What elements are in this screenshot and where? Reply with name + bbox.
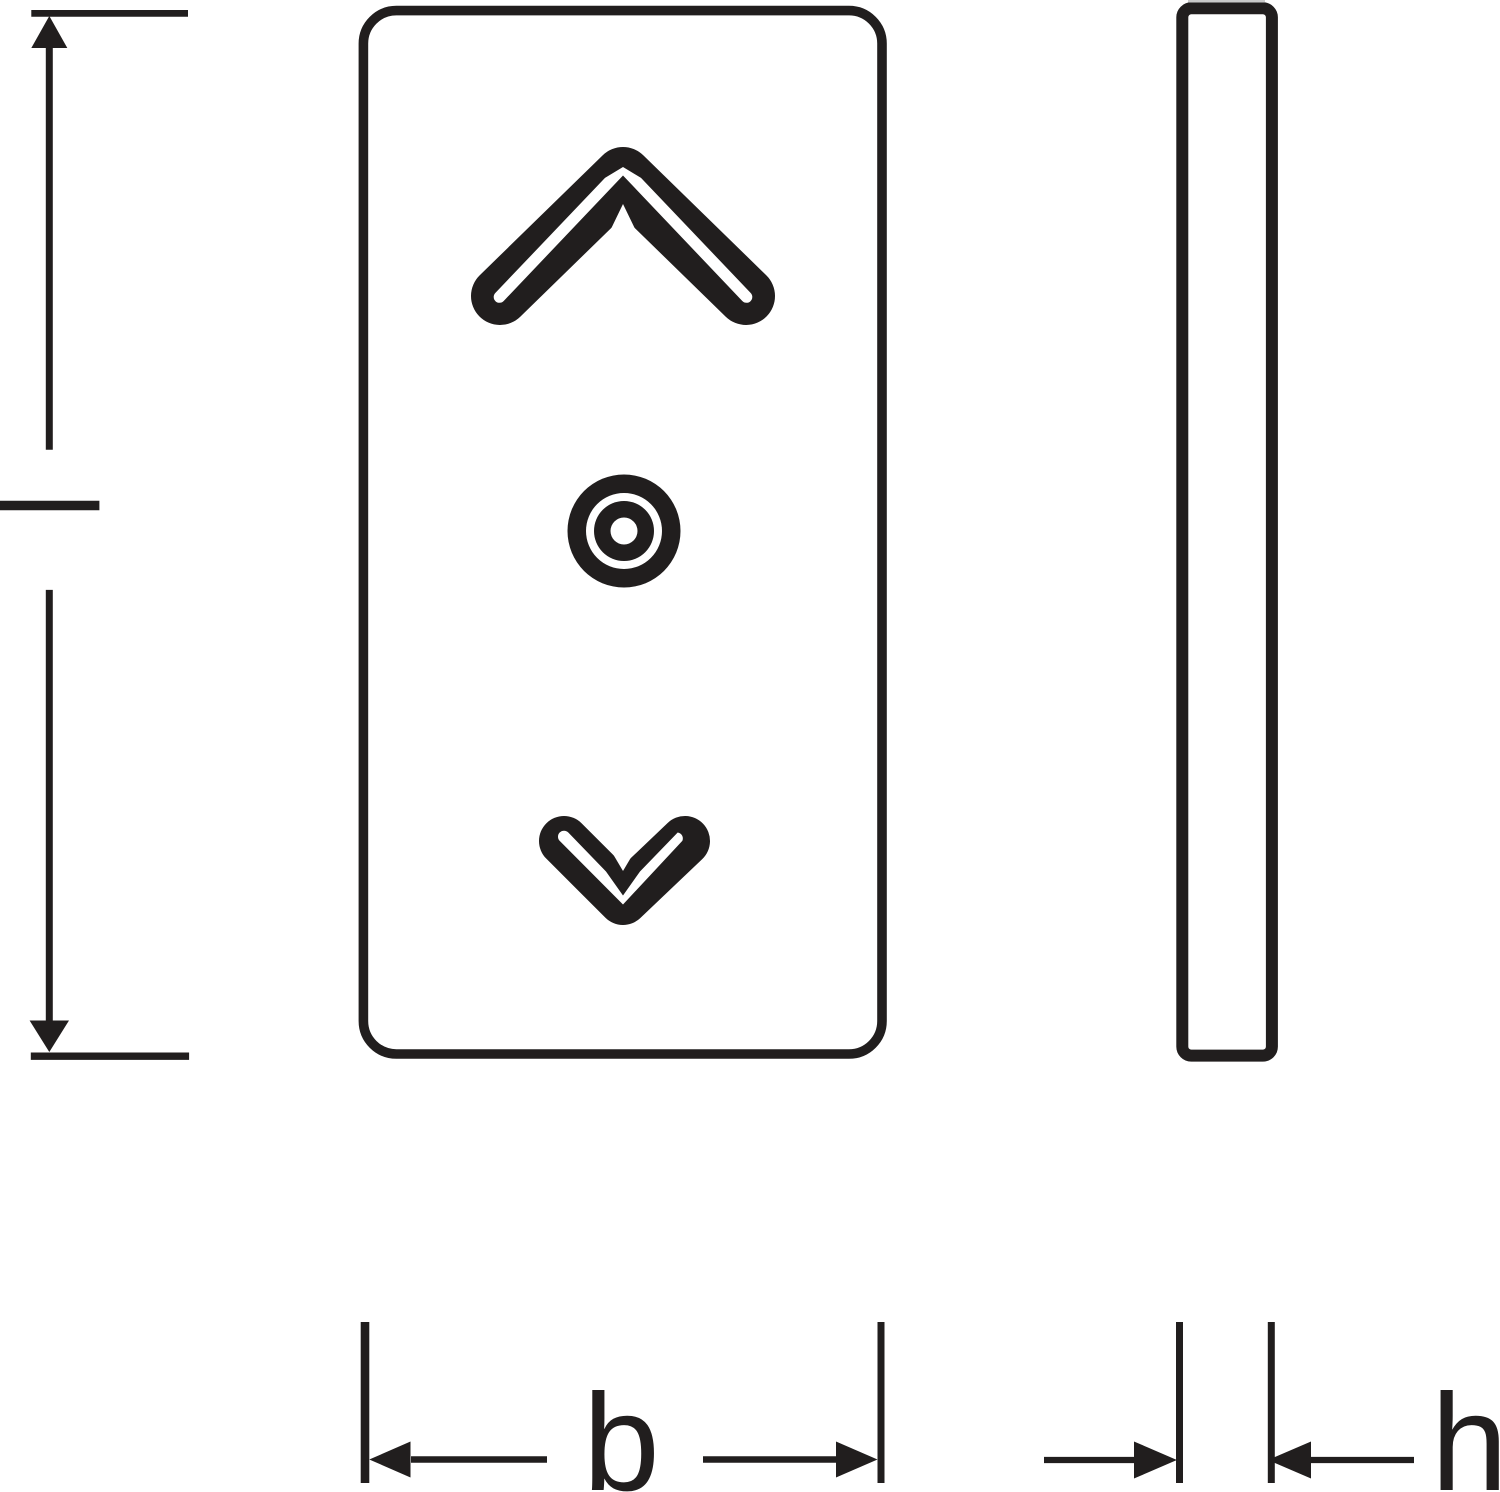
thickness dimension h: left arrow line [1311,1457,1414,1463]
width dimension b: right tick [878,1322,885,1483]
center button outer disc [568,475,681,588]
height dimension: top tick [31,10,188,17]
height dimension: up arrowhead [31,16,67,48]
center button white ring [586,493,662,569]
chevron up inner tip lift [609,204,637,233]
center button white hole [611,518,638,545]
svg-text:h: h [1431,1366,1500,1492]
thickness dimension h: right tick [1268,1322,1275,1483]
center button inner ring [594,501,654,561]
side view outline (profile) [1182,8,1272,1055]
thickness dimension h: left tick [1176,1322,1183,1483]
svg-text:b: b [583,1366,660,1492]
width dimension b: left tick [361,1322,370,1483]
height dimension: middle tick [0,501,99,511]
thickness dimension h: right-pointing arrowhead [1134,1442,1177,1479]
width dimension b: right arrowhead [836,1442,878,1478]
thickness dimension h: right-pointing arrow line [1044,1457,1136,1463]
width dimension b: left arrow line [411,1456,547,1463]
height dimension: bottom tick [31,1053,189,1060]
chevron down icon (black band) [564,841,685,900]
chevron up icon (white inner line) [494,167,753,303]
chevron up icon (black band) [500,176,746,296]
width dimension b: left arrowhead [369,1442,410,1478]
front view outline (rocker switch face) [363,11,882,1054]
height dimension: upper extension line [46,46,53,450]
height dimension: lower extension line [46,590,53,1023]
thickness dimension h: left-pointing arrowhead [1268,1442,1311,1479]
grey artifact above side view [1188,0,1265,3]
chevron down icon (white inner line) [558,831,683,905]
width dimension b: right arrow line [703,1456,837,1463]
height dimension: down arrowhead [30,1021,69,1053]
chevron down inner tip lift [610,849,636,871]
